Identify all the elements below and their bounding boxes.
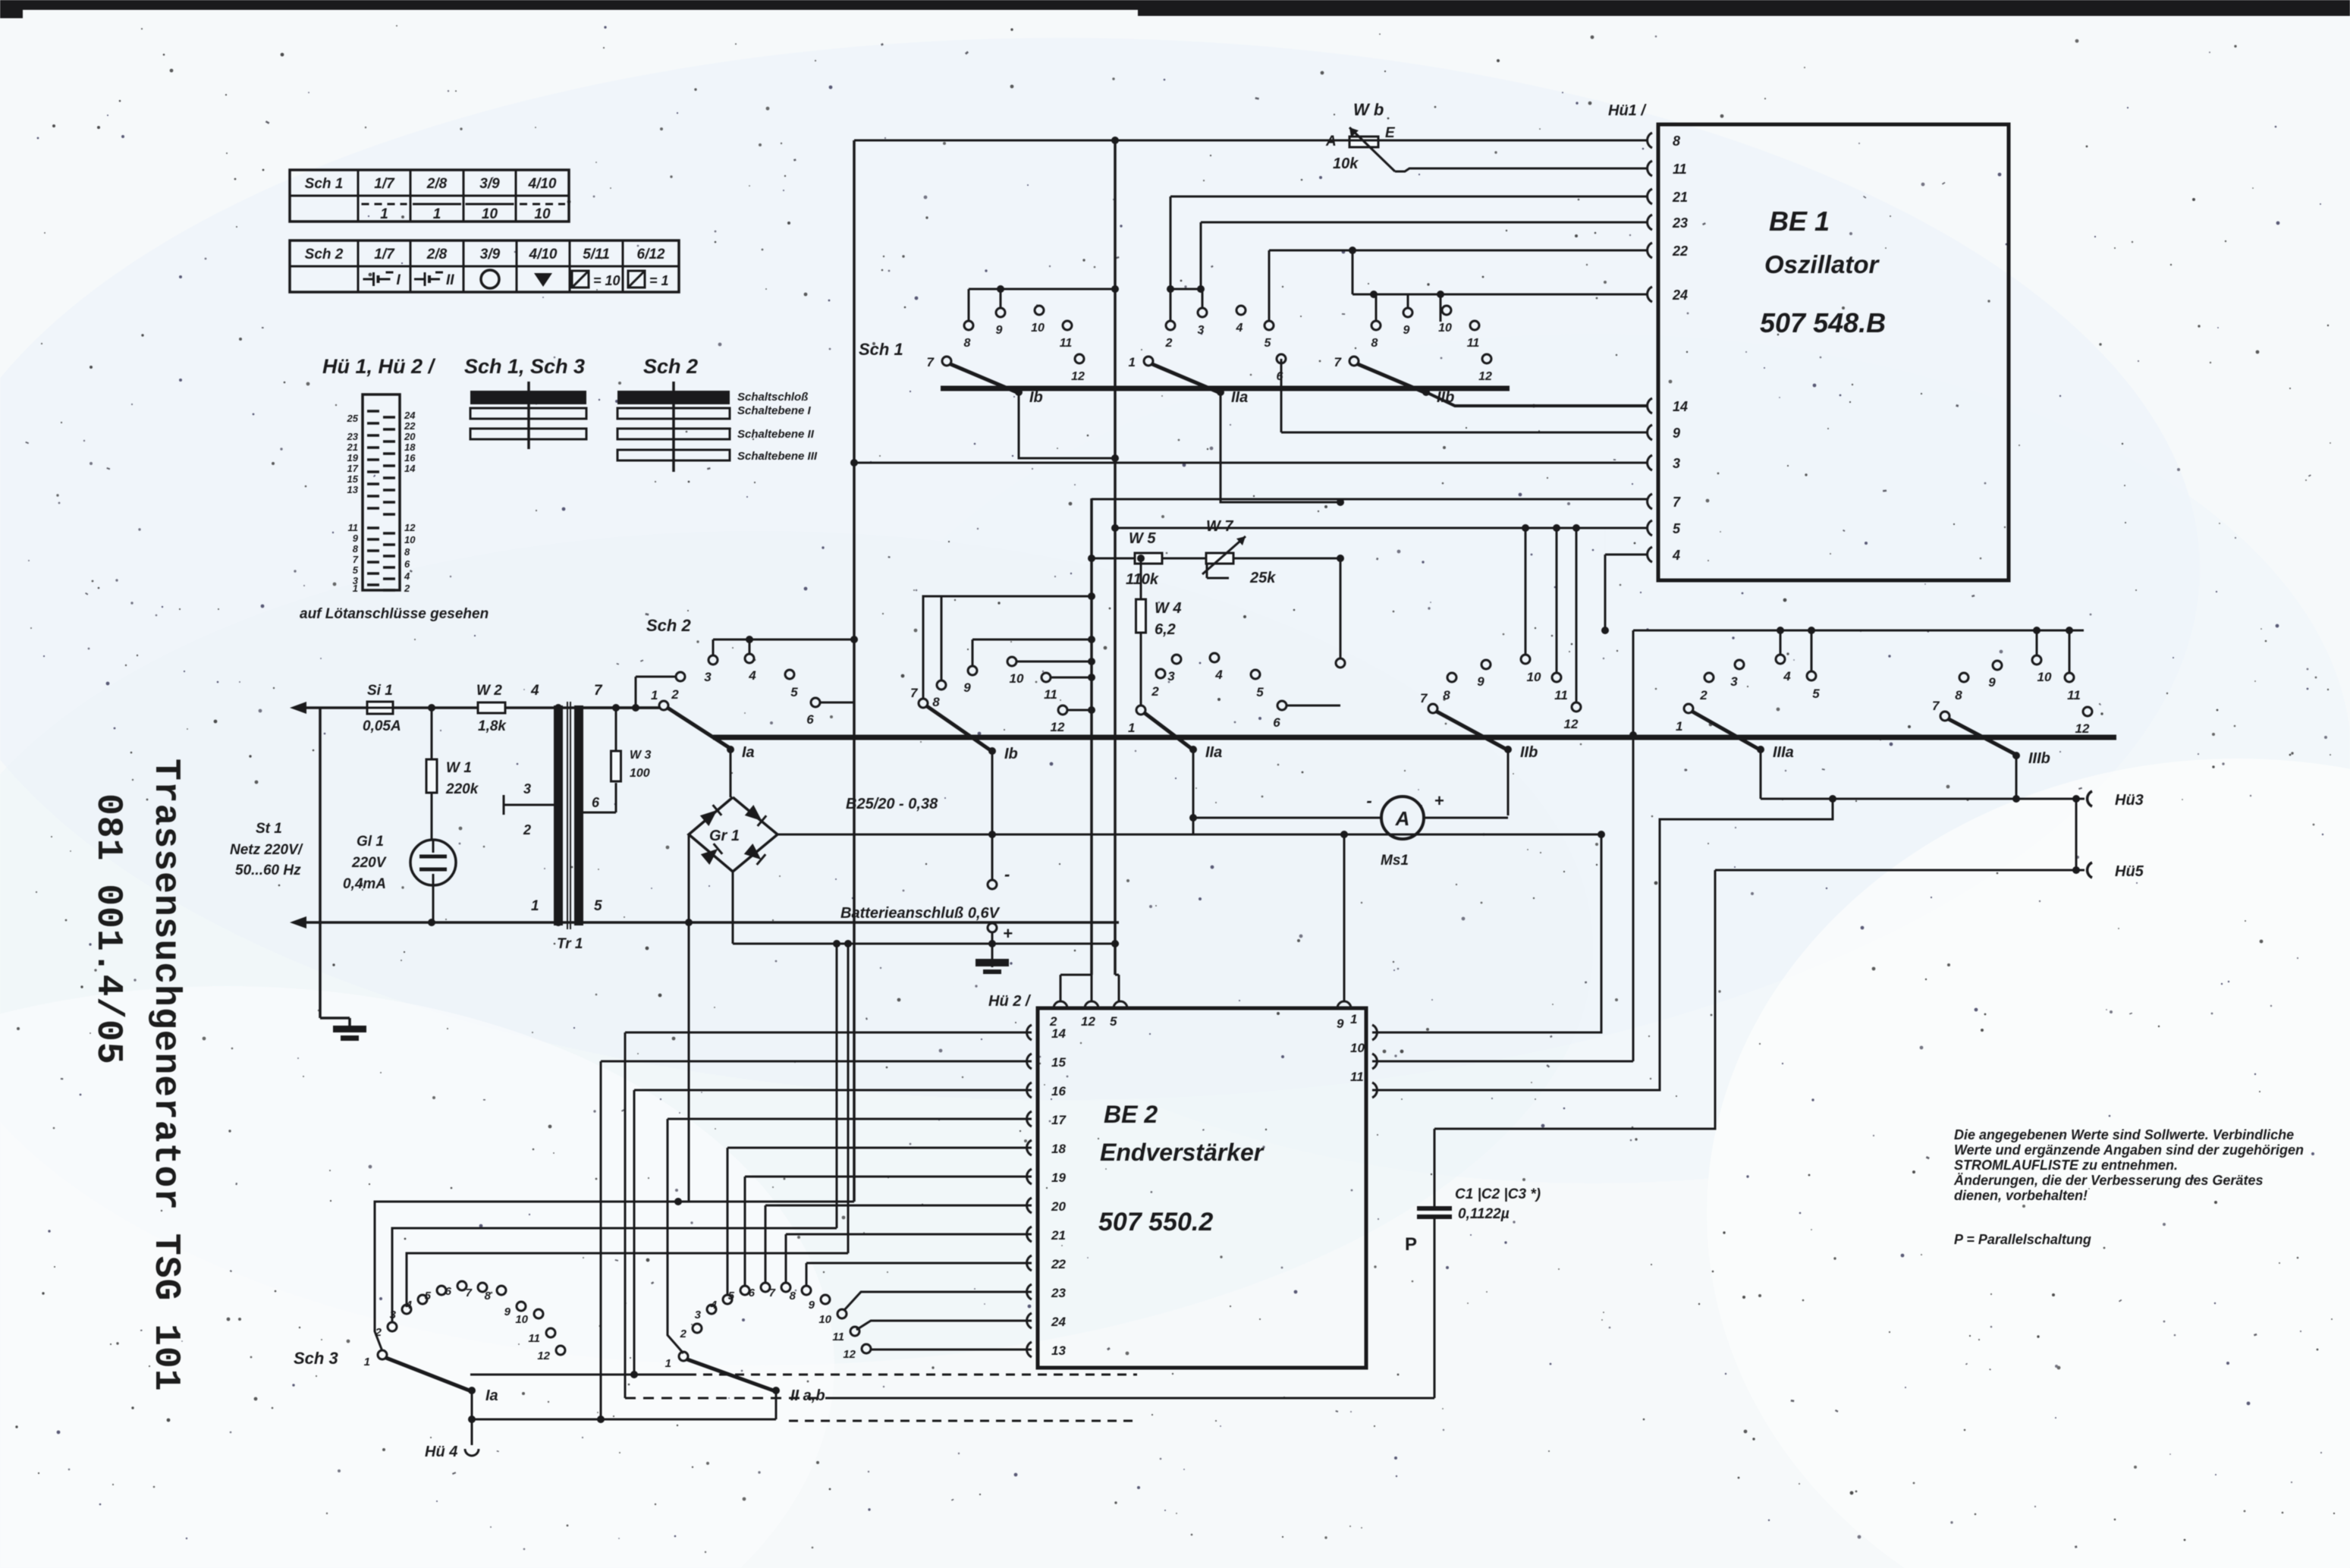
svg-text:10k: 10k <box>1333 156 1359 172</box>
svg-text:Gl 1: Gl 1 <box>357 834 384 850</box>
trunk C <box>1114 140 1117 975</box>
svg-text:BE 1: BE 1 <box>1769 206 1830 237</box>
bridge bottom to battery rail <box>732 872 734 944</box>
svg-text:9: 9 <box>1403 324 1410 337</box>
switch Sch2 Ia contacts <box>658 705 660 708</box>
scan artifact top bar <box>0 0 2350 10</box>
svg-text:17: 17 <box>347 463 359 474</box>
svg-text:Sch 1, Sch 3: Sch 1, Sch 3 <box>464 355 585 378</box>
svg-text:dienen, vorbehalten!: dienen, vorbehalten! <box>1954 1188 2088 1203</box>
svg-text:Sch 3: Sch 3 <box>294 1349 338 1368</box>
svg-text:24: 24 <box>1051 1315 1066 1329</box>
svg-text:21: 21 <box>347 441 358 453</box>
wire BE2 pin13 <box>871 1349 1032 1351</box>
svg-text:12: 12 <box>404 522 416 533</box>
transformer Tr1 <box>554 705 563 925</box>
BE2 top stubs <box>1060 975 1062 1001</box>
module BE2 amplifier <box>1038 1008 1366 1368</box>
svg-text:= 1: = 1 <box>649 273 669 288</box>
BE1 pin 21 <box>1648 189 1652 204</box>
svg-text:16: 16 <box>404 452 416 463</box>
svg-text:Schaltebene III: Schaltebene III <box>737 450 818 463</box>
svg-text:Die angegebenen Werte sind Sol: Die angegebenen Werte sind Sollwerte. Ve… <box>1954 1127 2294 1142</box>
wire BE2 pin19 <box>745 1176 1032 1178</box>
svg-text:4: 4 <box>530 683 539 699</box>
svg-text:= 10: = 10 <box>593 273 620 288</box>
table Sch2 settings <box>290 240 679 292</box>
svg-text:9: 9 <box>1477 674 1484 689</box>
bridge left arm down <box>688 834 690 1202</box>
svg-text:Trassensuchgenerator TSG 101: Trassensuchgenerator TSG 101 <box>145 759 186 1392</box>
svg-text:8: 8 <box>1955 688 1962 702</box>
wire BE2 pin11 to Hü3 <box>1372 799 1833 1090</box>
svg-text:4: 4 <box>1672 548 1680 563</box>
wire BE2 pin10 to bus riser <box>1372 1061 1633 1063</box>
svg-text:8: 8 <box>404 546 410 558</box>
Ib pivot to battery minus <box>991 754 994 880</box>
svg-text:9: 9 <box>353 533 359 544</box>
wire BE2 pin22 <box>806 1262 1032 1265</box>
svg-text:6: 6 <box>1273 715 1280 730</box>
svg-text:Schaltschloß: Schaltschloß <box>737 391 808 404</box>
svg-text:9: 9 <box>1673 426 1680 441</box>
wire W5/W7 row <box>1092 558 1340 560</box>
svg-text:14: 14 <box>404 463 416 474</box>
svg-text:13: 13 <box>347 484 359 495</box>
svg-text:6: 6 <box>749 1287 756 1299</box>
ammeter Ms1 <box>1381 797 1424 839</box>
Sch1 IIa contact stems <box>1170 289 1172 321</box>
svg-text:3/9: 3/9 <box>479 176 500 192</box>
BE1 pin 3 <box>1648 455 1652 470</box>
svg-text:100: 100 <box>630 767 650 780</box>
module BE1 oscillator <box>1658 124 2009 580</box>
BE1 pin 8 <box>1648 133 1652 148</box>
svg-text:17: 17 <box>1051 1113 1067 1127</box>
svg-text:12: 12 <box>537 1350 550 1362</box>
svg-text:4/10: 4/10 <box>529 247 558 262</box>
svg-text:15: 15 <box>347 473 359 485</box>
svg-text:11: 11 <box>1467 337 1480 350</box>
svg-text:2: 2 <box>1699 688 1708 702</box>
svg-text:13: 13 <box>1051 1343 1066 1358</box>
svg-text:5: 5 <box>728 1290 735 1302</box>
svg-text:+: + <box>1434 791 1444 810</box>
connector Hü1 Hü2 pin diagram <box>363 394 400 590</box>
resistor W1 <box>431 708 433 759</box>
Hü4 connector <box>471 1390 473 1445</box>
svg-text:1: 1 <box>353 583 358 594</box>
svg-text:9: 9 <box>963 680 971 695</box>
svg-text:18: 18 <box>1051 1142 1066 1156</box>
svg-text:W 4: W 4 <box>1155 600 1182 617</box>
svg-text:6: 6 <box>592 795 600 810</box>
svg-text:22: 22 <box>1672 244 1688 259</box>
svg-text:5: 5 <box>1256 685 1264 699</box>
svg-text:5: 5 <box>1265 337 1272 350</box>
svg-text:1: 1 <box>364 1356 370 1368</box>
BE2 pin 22 <box>1027 1255 1032 1271</box>
svg-text:220V: 220V <box>351 855 387 871</box>
svg-text:1: 1 <box>531 898 539 914</box>
svg-text:Werte und ergänzende Angaben s: Werte und ergänzende Angaben sind der zu… <box>1954 1142 2304 1158</box>
svg-text:Hü 1, Hü 2 /: Hü 1, Hü 2 / <box>322 355 436 378</box>
svg-text:14: 14 <box>1673 399 1688 414</box>
pot W7 <box>1206 553 1233 564</box>
svg-text:IIb: IIb <box>1520 744 1538 761</box>
svg-text:Hü3: Hü3 <box>2115 792 2144 809</box>
svg-text:6: 6 <box>445 1285 452 1298</box>
svg-text:3: 3 <box>1198 324 1205 337</box>
svg-text:Hü 4: Hü 4 <box>425 1444 457 1460</box>
svg-text:12: 12 <box>1081 1014 1095 1029</box>
svg-text:23: 23 <box>1672 215 1688 231</box>
wire BE2 pin20 <box>765 1205 1032 1207</box>
BE2 pin 15 <box>1027 1054 1032 1069</box>
Hü3 output line <box>1761 798 2085 800</box>
neon lamp Gl1 <box>410 840 456 885</box>
svg-text:1: 1 <box>1129 355 1136 369</box>
battery ground <box>991 944 994 959</box>
svg-text:W b: W b <box>1353 100 1384 119</box>
trunk B <box>1090 498 1093 975</box>
BE2 pin 19 <box>1027 1169 1032 1184</box>
winding 6 to W3 <box>583 812 616 814</box>
svg-text:21: 21 <box>1672 190 1688 205</box>
svg-text:1/7: 1/7 <box>374 176 395 192</box>
svg-text:5: 5 <box>1110 1014 1117 1029</box>
svg-text:20: 20 <box>404 431 416 442</box>
BE2 pin 20 <box>1027 1198 1032 1213</box>
svg-text:2/8: 2/8 <box>426 247 448 262</box>
switch Sch2 IIIb <box>1940 712 1949 721</box>
wire to BE1 pin 24 <box>1353 294 1648 296</box>
svg-text:Ib: Ib <box>1029 389 1043 406</box>
BE1 pin 5 <box>1648 520 1652 536</box>
wire BE2 pin21 <box>786 1233 1032 1236</box>
svg-text:8: 8 <box>790 1290 796 1302</box>
svg-text:8: 8 <box>1673 134 1680 149</box>
svg-text:24: 24 <box>1672 288 1688 303</box>
bridge right dc line <box>778 834 1601 836</box>
svg-text:6: 6 <box>404 558 410 570</box>
svg-text:1: 1 <box>1128 721 1135 735</box>
svg-text:4: 4 <box>404 570 410 582</box>
svg-text:11: 11 <box>832 1331 844 1343</box>
svg-text:11: 11 <box>1673 162 1687 177</box>
svg-text:10: 10 <box>1350 1041 1365 1055</box>
BE2 pin 24 <box>1027 1313 1032 1328</box>
svg-text:10: 10 <box>1031 322 1045 335</box>
ground <box>348 1018 351 1026</box>
svg-text:Hü5: Hü5 <box>2115 863 2144 880</box>
svg-text:12: 12 <box>1564 717 1579 731</box>
svg-text:2: 2 <box>671 687 679 702</box>
svg-text:5: 5 <box>425 1290 432 1302</box>
Ib pivot drop <box>1019 392 1115 458</box>
svg-text:Netz 220V/: Netz 220V/ <box>230 842 303 858</box>
Hü3/Hü5 branch <box>2075 799 2078 870</box>
svg-text:Ia: Ia <box>485 1387 498 1404</box>
BE2 pin 1 right <box>1372 1025 1377 1040</box>
resistor W5 <box>1135 553 1162 564</box>
svg-text:E: E <box>1385 125 1396 141</box>
svg-text:7: 7 <box>1334 355 1343 369</box>
pin9 wire drop to contact 6 <box>1280 359 1283 432</box>
svg-text:7: 7 <box>1673 495 1681 510</box>
svg-text:081 001.4/05: 081 001.4/05 <box>87 793 128 1065</box>
svg-text:10: 10 <box>818 1313 831 1326</box>
svg-text:23: 23 <box>1051 1286 1066 1300</box>
BE2 pin 10 right <box>1372 1054 1377 1069</box>
Sch2 wafer symbol <box>672 382 675 472</box>
Sch1 IIb contact stems <box>1375 294 1378 321</box>
svg-text:W 5: W 5 <box>1129 530 1156 547</box>
svg-text:1: 1 <box>1350 1012 1357 1026</box>
svg-text:1: 1 <box>433 206 441 222</box>
svg-text:B25/20 - 0,38: B25/20 - 0,38 <box>846 796 938 812</box>
svg-text:11: 11 <box>348 522 359 533</box>
svg-text:25k: 25k <box>1249 570 1276 586</box>
svg-text:Sch 1: Sch 1 <box>305 176 344 192</box>
svg-text:1: 1 <box>1676 719 1682 734</box>
svg-text:Ib: Ib <box>1004 746 1018 762</box>
svg-text:Batterieanschluß 0,6V: Batterieanschluß 0,6V <box>840 905 1001 922</box>
svg-text:2: 2 <box>1151 684 1159 699</box>
Sch1 switch IIb <box>1349 357 1359 366</box>
BE2 top pin 5 <box>1114 1001 1127 1008</box>
svg-text:IIIa: IIIa <box>1773 744 1794 761</box>
bridge rectifier Gr1 <box>689 797 778 872</box>
svg-text:23: 23 <box>347 431 359 442</box>
wire BE2 pin16 <box>634 1089 1032 1092</box>
svg-text:Tr 1: Tr 1 <box>557 936 583 952</box>
svg-text:7: 7 <box>910 686 919 700</box>
svg-text:W 3: W 3 <box>630 749 652 762</box>
svg-text:2: 2 <box>680 1328 687 1340</box>
svg-text:8: 8 <box>1443 688 1450 702</box>
svg-text:3: 3 <box>704 670 712 684</box>
svg-text:11: 11 <box>2067 688 2081 702</box>
Sch1 switch IIa <box>1144 357 1153 366</box>
BE2 pin 18 <box>1027 1140 1032 1155</box>
svg-text:Oszillator: Oszillator <box>1764 250 1880 278</box>
svg-text:0,1122µ: 0,1122µ <box>1458 1206 1510 1222</box>
svg-text:0,4mA: 0,4mA <box>343 876 386 892</box>
svg-text:W 7: W 7 <box>1206 518 1233 535</box>
BE2 top pin 9 <box>1337 1001 1351 1008</box>
svg-text:1: 1 <box>651 688 658 702</box>
BE2 pin 17 <box>1027 1111 1032 1127</box>
svg-text:7: 7 <box>769 1287 776 1299</box>
Sch3 fan I contacts <box>388 1322 397 1331</box>
wire to BE1 pin 11 <box>1395 168 1648 171</box>
svg-text:Hü 2 /: Hü 2 / <box>988 993 1032 1010</box>
switch Sch2 IIa <box>1136 705 1145 715</box>
svg-text:11: 11 <box>1060 337 1073 350</box>
svg-text:4/10: 4/10 <box>528 176 557 192</box>
BE1 pin 11 <box>1648 161 1652 176</box>
svg-text:1: 1 <box>665 1357 671 1370</box>
BE2 pin 21 <box>1027 1227 1032 1242</box>
svg-text:7: 7 <box>1932 699 1940 713</box>
BE1 pin 4 <box>1648 547 1652 562</box>
svg-text:-: - <box>1366 791 1371 810</box>
resistor W3 <box>615 783 617 812</box>
svg-text:8: 8 <box>353 543 359 555</box>
svg-text:11: 11 <box>1554 688 1568 702</box>
svg-text:7: 7 <box>1420 691 1428 705</box>
svg-text:10: 10 <box>534 206 551 222</box>
svg-text:4: 4 <box>748 668 756 683</box>
svg-text:16: 16 <box>1051 1084 1066 1098</box>
svg-text:10: 10 <box>404 534 416 545</box>
long bottom rail <box>625 1397 834 1400</box>
svg-text:6,2: 6,2 <box>1155 621 1176 638</box>
table Sch1 settings <box>290 170 569 222</box>
wire to BE1 pin 7 <box>1092 498 1648 501</box>
svg-text:5: 5 <box>790 685 798 699</box>
svg-text:7: 7 <box>353 554 359 565</box>
svg-text:6: 6 <box>806 712 814 727</box>
BE2 pin 23 <box>1027 1284 1032 1299</box>
mains input St1 <box>290 702 306 714</box>
svg-text:110k: 110k <box>1126 571 1159 588</box>
svg-text:W 2: W 2 <box>476 683 502 699</box>
BE1 pin 24 <box>1648 287 1652 302</box>
Sch1 wiper bus <box>941 386 1510 391</box>
svg-text:9: 9 <box>504 1306 511 1318</box>
svg-text:IIIb: IIIb <box>2028 750 2050 767</box>
resistor W4 <box>1137 555 1145 562</box>
svg-text:4: 4 <box>710 1299 718 1312</box>
wire to BE1 pin 14 <box>1426 392 1648 406</box>
switch Sch2 Ib <box>919 699 928 708</box>
wire BE2 pin15 <box>601 1061 1032 1063</box>
wire to BE1 pin 21 <box>1170 196 1648 198</box>
resistor W2 <box>478 702 505 713</box>
capacitor C1 C2 C3 <box>1434 1129 1436 1208</box>
svg-text:10: 10 <box>1527 670 1541 684</box>
svg-text:C1 |C2 |C3 *): C1 |C2 |C3 *) <box>1455 1186 1541 1202</box>
svg-text:24: 24 <box>404 410 416 421</box>
wire BE2 pin14 <box>625 1032 1032 1034</box>
svg-text:4: 4 <box>1783 669 1791 683</box>
svg-text:Sch 2: Sch 2 <box>305 247 344 262</box>
BE2 top pin 2 <box>1054 1001 1067 1008</box>
svg-text:Sch 1: Sch 1 <box>859 340 903 359</box>
BE2 pin 13 <box>1027 1342 1032 1357</box>
svg-text:11: 11 <box>1350 1070 1364 1084</box>
svg-text:3: 3 <box>1673 456 1680 471</box>
svg-text:IIa: IIa <box>1205 744 1222 761</box>
wire BE2 pin23 <box>844 1292 1032 1310</box>
BE1 pin 14 <box>1648 398 1652 413</box>
svg-text:12: 12 <box>1071 370 1085 383</box>
drop from rail through bus to BE2 pin10 <box>1632 630 1635 1061</box>
svg-text:Hü1 /: Hü1 / <box>1608 102 1647 119</box>
svg-text:1,8k: 1,8k <box>478 718 507 734</box>
wire BE2 pin24 <box>856 1321 1032 1330</box>
BE1 pin 23 <box>1648 215 1652 230</box>
svg-text:Sch 2: Sch 2 <box>643 355 698 378</box>
Sch3 fan I wiper <box>378 1350 387 1359</box>
svg-text:Schaltebene II: Schaltebene II <box>737 428 815 441</box>
Sch1 Ib contact stems <box>968 289 970 321</box>
svg-text:Ms1: Ms1 <box>1381 853 1409 869</box>
svg-text:10: 10 <box>1438 322 1452 335</box>
rail feeding IIIa/IIIb contacts <box>1633 630 2084 632</box>
svg-text:3/9: 3/9 <box>480 247 501 262</box>
svg-text:P: P <box>1405 1234 1417 1255</box>
svg-text:Schaltebene I: Schaltebene I <box>737 404 812 417</box>
svg-text:Ia: Ia <box>742 744 755 761</box>
Sch1/Sch3 wafer symbol <box>527 382 530 449</box>
svg-text:12: 12 <box>1051 720 1065 734</box>
svg-text:Sch 2: Sch 2 <box>646 616 691 635</box>
svg-text:auf Lötanschlüsse gesehen: auf Lötanschlüsse gesehen <box>300 606 489 622</box>
svg-text:8: 8 <box>485 1290 492 1302</box>
svg-text:8: 8 <box>1371 337 1378 350</box>
svg-text:10: 10 <box>482 206 498 222</box>
switch Sch2 IIb <box>1428 704 1437 713</box>
wire to BE1 pin 5 <box>1115 527 1648 529</box>
wire to BE1 pin 23 <box>1201 222 1648 224</box>
Sch3 fan II contacts <box>693 1324 702 1333</box>
svg-text:2: 2 <box>523 822 531 837</box>
svg-text:9: 9 <box>809 1299 815 1312</box>
svg-text:5: 5 <box>594 898 602 914</box>
svg-text:20: 20 <box>1051 1199 1066 1214</box>
BE2 pin 11 right <box>1372 1083 1377 1098</box>
svg-text:2: 2 <box>1165 337 1173 350</box>
svg-text:15: 15 <box>1051 1055 1066 1070</box>
svg-text:19: 19 <box>1051 1171 1066 1185</box>
svg-text:3: 3 <box>1730 674 1738 689</box>
wire BE2 pin17 <box>668 1118 1032 1120</box>
svg-text:Endverstärker: Endverstärker <box>1100 1139 1265 1166</box>
svg-text:5: 5 <box>353 564 359 576</box>
svg-text:21: 21 <box>1051 1228 1066 1243</box>
svg-text:10: 10 <box>2037 670 2052 684</box>
Sch3 wiper common line <box>470 1374 687 1376</box>
svg-text:507 548.B: 507 548.B <box>1760 307 1886 338</box>
cap loop to Hü5 line <box>1434 870 1715 1129</box>
svg-text:19: 19 <box>347 452 359 463</box>
svg-text:BE 2: BE 2 <box>1104 1101 1158 1128</box>
svg-text:7: 7 <box>594 683 603 699</box>
wire to BE1 pin 8 <box>854 140 1648 142</box>
IIa pivot drop <box>1221 392 1340 502</box>
main bus (Sch2 wiper rail) <box>713 735 2116 740</box>
wire to BE1 pin 22 <box>1269 250 1648 252</box>
svg-text:12: 12 <box>843 1348 856 1361</box>
svg-text:8: 8 <box>932 695 940 709</box>
svg-text:4: 4 <box>1214 668 1223 682</box>
wire to BE1 pin 4 <box>1604 528 1606 555</box>
svg-text:3: 3 <box>695 1309 702 1321</box>
wire BE2 pin1 to dc line <box>1372 834 1601 1032</box>
svg-text:5/11: 5/11 <box>583 247 610 262</box>
svg-text:22: 22 <box>1051 1257 1066 1271</box>
svg-text:II a,b: II a,b <box>790 1387 825 1404</box>
svg-text:3: 3 <box>523 781 531 797</box>
BE1 pin 7 <box>1648 494 1652 509</box>
svg-text:6/12: 6/12 <box>637 247 665 262</box>
svg-text:3: 3 <box>1167 669 1175 683</box>
W7 drop wire <box>1340 558 1342 658</box>
svg-text:St 1: St 1 <box>256 821 282 837</box>
